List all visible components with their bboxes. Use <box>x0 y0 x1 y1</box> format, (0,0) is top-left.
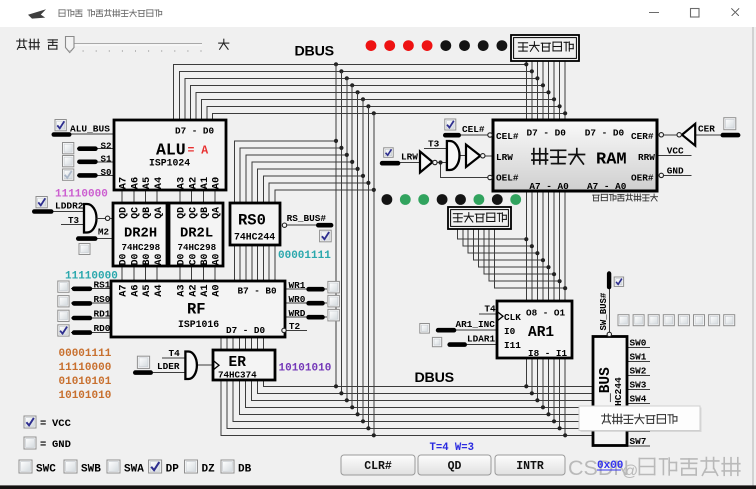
svg-text:I0: I0 <box>504 326 516 337</box>
and gate U-DR2 (LDDR2*T3) <box>84 204 97 233</box>
svg-text:11110000: 11110000 <box>59 362 112 374</box>
svg-text:SW0: SW0 <box>630 338 647 349</box>
clock wedge ER <box>214 361 220 370</box>
wire T2 <box>287 329 308 331</box>
svg-text:QD: QD <box>448 460 462 473</box>
bar RS_BUS# <box>316 223 333 228</box>
svg-text:ISP1024: ISP1024 <box>149 158 190 169</box>
svg-text:D7 - D0: D7 - D0 <box>175 126 214 137</box>
svg-text:A2: A2 <box>187 177 199 189</box>
svg-text:T4: T4 <box>169 348 181 359</box>
svg-text:OER#: OER# <box>631 173 654 184</box>
svg-text:A7: A7 <box>118 284 130 296</box>
svg-text:A7: A7 <box>118 177 130 189</box>
checkbox RS1 <box>58 281 69 292</box>
maximize button <box>691 9 700 18</box>
svg-text:LRW: LRW <box>401 152 418 163</box>
label data indicator top <box>518 42 573 52</box>
svg-text:QA: QA <box>211 207 222 219</box>
svg-text:VCC: VCC <box>667 146 684 157</box>
svg-text:SW4: SW4 <box>630 394 647 405</box>
wire RAM data columns <box>526 61 565 120</box>
wire SW0-SW7 lines <box>627 348 650 446</box>
wire WR0 <box>285 302 327 304</box>
svg-text:A1: A1 <box>199 284 211 296</box>
bar LDAR1 <box>447 342 467 347</box>
wire RD0 <box>71 331 111 333</box>
pins ALU A7-A0 <box>118 177 223 189</box>
data indicator label box mid <box>448 207 511 229</box>
wire AR1_INC <box>456 329 497 331</box>
bar LDDR2 <box>32 209 54 214</box>
bubble BUS top <box>607 332 611 336</box>
wire WRD <box>285 316 327 318</box>
address indicator lights <box>382 194 522 205</box>
button QD <box>418 455 491 475</box>
bubble RS0 out <box>282 223 286 227</box>
svg-text:=: = <box>40 418 46 430</box>
wire LRW buf to RAM <box>485 155 493 157</box>
checkbox CER <box>724 118 736 130</box>
window title text <box>59 10 82 17</box>
wire AR1 O8-O1 to DBUS bottom <box>526 358 565 435</box>
svg-text:RD1: RD1 <box>94 309 111 320</box>
svg-text:10101010: 10101010 <box>59 390 112 402</box>
svg-text:01010101: 01010101 <box>59 376 112 388</box>
svg-text:74HC298: 74HC298 <box>122 242 161 253</box>
and gate U-ER (LDER*T4) <box>185 351 197 379</box>
svg-text:_BUS: _BUS <box>598 367 614 403</box>
svg-text:DZ: DZ <box>202 464 216 476</box>
button CLR# <box>341 455 415 475</box>
wire M2 <box>76 238 113 240</box>
svg-text:C0: C0 <box>187 254 198 266</box>
label RAM hint <box>593 194 658 201</box>
svg-text:CER#: CER# <box>631 131 654 142</box>
svg-text:RF: RF <box>187 301 206 319</box>
svg-text:11110000: 11110000 <box>55 189 108 201</box>
data indicator label box top <box>511 35 579 61</box>
wire LRW inv to and <box>437 162 447 164</box>
svg-text:@: @ <box>622 463 638 480</box>
svg-text:DR2L: DR2L <box>180 227 213 242</box>
svg-text:CEL#: CEL# <box>462 124 485 135</box>
bar M2 <box>76 236 98 241</box>
buffer RS0 box <box>230 203 280 245</box>
checkbox SW_BUS# <box>614 277 623 286</box>
bar RD1 <box>72 316 93 321</box>
svg-text:CER: CER <box>698 123 715 134</box>
wire OEL# <box>441 163 488 178</box>
svg-text:A0: A0 <box>153 254 164 266</box>
checkbox LDER <box>137 356 149 368</box>
svg-text:D7 - D0: D7 - D0 <box>226 325 265 336</box>
checkbox legend GND <box>24 437 36 449</box>
svg-text:LRW: LRW <box>496 152 513 163</box>
svg-text:SW3: SW3 <box>630 380 647 391</box>
svg-text:WR0: WR0 <box>289 294 306 305</box>
watermark handle <box>639 458 739 476</box>
checkbox ALU_BUS <box>55 120 66 131</box>
svg-text:OEL#: OEL# <box>496 173 519 184</box>
checkbox RS_BUS# <box>320 230 332 242</box>
svg-text:D7 - D0: D7 - D0 <box>585 127 625 138</box>
svg-text:S0: S0 <box>101 167 112 178</box>
svg-text:RD0: RD0 <box>94 323 111 334</box>
slider ticks <box>70 50 201 52</box>
bar AR1_INC <box>436 328 457 333</box>
wire RS0 to RF B7-B0 <box>234 245 275 281</box>
svg-text:DP: DP <box>166 464 180 476</box>
bar S0 <box>77 173 98 178</box>
bar WRD <box>306 315 325 320</box>
svg-text:D0: D0 <box>118 254 129 266</box>
svg-text:A5: A5 <box>141 284 153 296</box>
svg-text:S1: S1 <box>101 153 113 164</box>
dual-port RAM box <box>493 120 657 191</box>
svg-text:GND: GND <box>667 166 684 177</box>
and gate U-LRW2 <box>447 141 460 170</box>
svg-text:74HC244: 74HC244 <box>234 232 275 243</box>
pins DR2 QD-QA <box>118 207 222 219</box>
svg-text:B7 - B0: B7 - B0 <box>238 286 277 297</box>
svg-text:A0: A0 <box>211 284 223 296</box>
bar CER <box>721 133 741 138</box>
bubble U-LRW1 out <box>433 160 437 164</box>
svg-text:ALU_BUS: ALU_BUS <box>70 123 110 134</box>
checkbox legend VCC <box>24 416 36 428</box>
bar LRW <box>380 161 401 166</box>
svg-text:GND: GND <box>52 439 71 451</box>
junction dots DBUS top row <box>334 62 567 115</box>
wire S1 <box>77 161 114 163</box>
svg-text:WRD: WRD <box>289 308 306 319</box>
window right border <box>752 27 754 486</box>
title bar icon <box>28 9 46 18</box>
inverter U-CER <box>682 124 695 146</box>
inverter U-LRW1 <box>420 152 433 173</box>
svg-text:DBUS: DBUS <box>295 44 334 60</box>
slider thumb <box>66 37 75 53</box>
svg-text:SW7: SW7 <box>630 436 647 447</box>
junction LRW node <box>438 160 442 164</box>
slider track <box>66 43 202 45</box>
svg-text:ISP1016: ISP1016 <box>178 319 219 330</box>
bubble U-LRW3 out <box>481 154 485 158</box>
checkbox S1 <box>63 156 74 167</box>
svg-text:B0: B0 <box>199 254 210 266</box>
checkbox RD1 <box>58 310 69 321</box>
junction dots address bundle <box>524 237 567 290</box>
label RAM name <box>532 149 585 164</box>
fast label <box>48 40 57 49</box>
svg-text:M2: M2 <box>98 227 109 238</box>
svg-text:QC: QC <box>129 207 140 219</box>
svg-text:A2: A2 <box>187 284 199 296</box>
wire ER gate out <box>197 364 213 366</box>
svg-text:QD: QD <box>176 207 187 219</box>
svg-text:A6: A6 <box>129 177 141 189</box>
minimize button <box>649 12 659 14</box>
pins DR2 D0-A0 <box>118 254 222 266</box>
bar RD0 <box>72 330 93 335</box>
bubble RAM CEL# <box>488 133 492 137</box>
wire OER# GND <box>664 174 692 176</box>
svg-text:D7 - D0: D7 - D0 <box>527 127 567 138</box>
svg-text:74HC298: 74HC298 <box>178 242 217 253</box>
svg-text:SW_BUS#: SW_BUS# <box>599 292 609 330</box>
wire DR2H DR2L to RF <box>122 266 215 281</box>
register AR1 box <box>497 301 572 358</box>
svg-text:B0: B0 <box>141 254 152 266</box>
wire bundle RS0 to DBUS <box>234 141 373 203</box>
svg-text:D0: D0 <box>176 254 187 266</box>
bar S2 <box>77 146 98 151</box>
wire U-DR2 out <box>97 217 106 219</box>
wire S0 <box>77 174 114 176</box>
wire RS_BUS# <box>287 224 333 226</box>
svg-text:I8 - I1: I8 - I1 <box>528 348 567 359</box>
checkbox LRW <box>384 148 394 158</box>
wire RS1 <box>71 288 111 290</box>
svg-text:CEL#: CEL# <box>496 131 519 142</box>
svg-text:= A: = A <box>188 145 209 158</box>
svg-text:QB: QB <box>199 207 210 219</box>
checkbox AR1_INC <box>420 324 430 334</box>
svg-text:SWB: SWB <box>81 464 101 476</box>
bar SW_BUS# vertical <box>607 271 611 289</box>
title bar <box>0 0 756 27</box>
bar RS1 <box>72 287 93 292</box>
wire LDER <box>153 371 185 373</box>
wire bundle address indicator to AR1 columns <box>458 229 566 288</box>
svg-text:D0: D0 <box>129 254 140 266</box>
svg-text:RRW: RRW <box>638 152 655 163</box>
wire LRW and to buf <box>460 155 467 157</box>
popup hide-blank tooltip <box>581 408 702 433</box>
svg-text:T4: T4 <box>484 304 496 315</box>
wire RD1 <box>71 317 111 319</box>
bar S1 <box>77 160 98 165</box>
labels SW0-SW4 <box>630 338 647 405</box>
svg-text:VCC: VCC <box>52 418 72 430</box>
svg-text:CLR#: CLR# <box>364 460 392 473</box>
checkbox CEL# <box>445 119 456 130</box>
svg-text:RAM: RAM <box>596 151 627 170</box>
svg-text:=: = <box>40 439 46 451</box>
wire bundle ER to DBUS bottom and BUS <box>221 380 593 435</box>
op-amp ALU box <box>114 120 226 190</box>
wire T3 DR2 <box>61 224 86 226</box>
checkbox RS0sel <box>58 296 69 307</box>
svg-text:RS0: RS0 <box>238 212 266 230</box>
svg-text:I11: I11 <box>504 340 521 351</box>
window bottom strip <box>0 485 756 489</box>
svg-text:LDDR2: LDDR2 <box>55 200 84 211</box>
wire S2 <box>77 148 114 150</box>
wire DBUS vertical columns <box>336 64 374 435</box>
checkbox LDAR1 <box>432 337 441 346</box>
svg-text:A7 - A0: A7 - A0 <box>587 181 627 192</box>
bubble RAM OEL# <box>488 175 492 179</box>
svg-text:QC: QC <box>187 207 198 219</box>
wire CEL# <box>458 134 488 136</box>
wire T4 AR1 <box>479 313 497 315</box>
bubble U-DR2 out <box>105 216 109 220</box>
svg-text:T3: T3 <box>428 139 440 150</box>
wire LRW in <box>398 162 420 164</box>
svg-text:A3: A3 <box>176 177 188 189</box>
svg-text:DBUS: DBUS <box>415 370 454 386</box>
buffer BUS box <box>593 337 627 446</box>
wire T4 ER <box>162 357 185 359</box>
junction dots DBUS bottom <box>334 384 376 437</box>
checkbox S0 <box>63 169 74 180</box>
svg-text:00001111: 00001111 <box>59 348 112 360</box>
svg-text:CLK: CLK <box>504 312 521 323</box>
register DR2L box <box>169 203 223 266</box>
data indicator lights top <box>366 40 508 51</box>
speed label <box>17 39 40 49</box>
checkbox S2 <box>63 143 74 154</box>
svg-text:INTR: INTR <box>516 460 544 473</box>
bar ALU_BUS <box>52 132 72 137</box>
wire LDDR2 <box>33 210 86 212</box>
checkbox WR0 <box>328 295 340 307</box>
register file RF box <box>111 281 285 337</box>
svg-text:DB: DB <box>238 464 252 476</box>
svg-text:A0: A0 <box>211 177 223 189</box>
svg-text:LDER: LDER <box>157 361 180 372</box>
wire RF D7-D0 to ER <box>221 337 263 350</box>
svg-text:T=4 W=3: T=4 W=3 <box>430 442 475 454</box>
label data indicator mid <box>453 213 506 222</box>
bubble RAM CER# <box>659 133 663 137</box>
svg-text:S2: S2 <box>101 140 112 151</box>
bar LDER <box>133 370 153 375</box>
bubble RF T2 <box>282 328 286 332</box>
slow label <box>219 39 229 49</box>
svg-text:A3: A3 <box>176 284 188 296</box>
svg-text:10101010: 10101010 <box>279 363 332 375</box>
svg-text:QB: QB <box>141 207 152 219</box>
svg-text:T3: T3 <box>68 215 80 226</box>
junction dots RS0 bundle <box>334 139 376 192</box>
svg-text:A4: A4 <box>153 177 165 189</box>
register ER box <box>213 350 275 380</box>
svg-text:AR1: AR1 <box>528 325 554 341</box>
svg-text:A7 - A0: A7 - A0 <box>529 181 569 192</box>
wire LDAR1 <box>467 343 497 345</box>
svg-text:00001111: 00001111 <box>278 250 331 262</box>
svg-text:LDAR1: LDAR1 <box>467 333 496 344</box>
svg-text:SW2: SW2 <box>630 366 647 377</box>
bar RS0sel <box>72 301 93 306</box>
bubble U-CER in <box>677 133 681 137</box>
bar WR0 <box>306 301 325 306</box>
svg-text:RS_BUS#: RS_BUS# <box>287 213 327 224</box>
svg-text:SWA: SWA <box>124 464 144 476</box>
svg-text:A6: A6 <box>129 284 141 296</box>
wire ALU A7-A0 to DR2H DR2L <box>122 190 215 203</box>
svg-text:RS0: RS0 <box>94 294 111 305</box>
checkbox M2 <box>79 244 90 255</box>
wire T3 RAM <box>424 148 447 150</box>
svg-text:SW1: SW1 <box>630 352 647 363</box>
bubble RAM OER# <box>659 173 663 177</box>
checkbox WRD <box>328 309 340 321</box>
svg-text:RS1: RS1 <box>94 279 111 290</box>
wire bundle ALU D7-D0 to DBUS top <box>174 64 565 120</box>
checkbox LDDR2 <box>36 197 47 208</box>
wire ALU_BUS <box>52 133 114 135</box>
bar CEL# <box>443 133 461 138</box>
wire SW_BUS# <box>608 289 610 332</box>
wire RS0sel <box>71 302 111 304</box>
wire CER# <box>664 134 677 136</box>
wire CER <box>695 134 720 136</box>
svg-text:QA: QA <box>153 207 164 219</box>
button INTR <box>495 455 565 475</box>
clock wedge AR1 <box>498 312 504 321</box>
wire U-DR2 to DR2H <box>110 217 113 219</box>
svg-text:O8 - O1: O8 - O1 <box>526 308 565 319</box>
svg-text:A5: A5 <box>141 177 153 189</box>
svg-text:74HC374: 74HC374 <box>218 369 257 380</box>
svg-text:SWC: SWC <box>36 464 56 476</box>
svg-text:A1: A1 <box>199 177 211 189</box>
junction dots AR1 bottom <box>524 384 567 437</box>
svg-text:A4: A4 <box>153 284 165 296</box>
checkbox row SW input <box>618 315 735 326</box>
close button <box>732 9 740 17</box>
checkbox RD0 <box>58 325 69 336</box>
wire RAM A7-A0 to AR1 columns <box>526 191 565 301</box>
svg-text:T2: T2 <box>289 321 301 332</box>
svg-text:AR1_INC: AR1_INC <box>456 319 496 330</box>
pins RF A7-A0 <box>118 284 223 296</box>
svg-text:DR2H: DR2H <box>124 227 157 242</box>
checkbox row bottom switches <box>19 460 252 476</box>
svg-text:A0: A0 <box>211 254 222 266</box>
checkbox WR1 <box>328 281 340 293</box>
svg-text:QD: QD <box>118 207 129 219</box>
svg-text:WR1: WR1 <box>289 280 306 291</box>
buffer U-LRW3 <box>466 145 480 167</box>
bar WR1 <box>306 287 325 292</box>
wire RRW VCC <box>657 155 692 157</box>
register DR2H box <box>113 203 167 266</box>
wire WR1 <box>285 288 327 290</box>
